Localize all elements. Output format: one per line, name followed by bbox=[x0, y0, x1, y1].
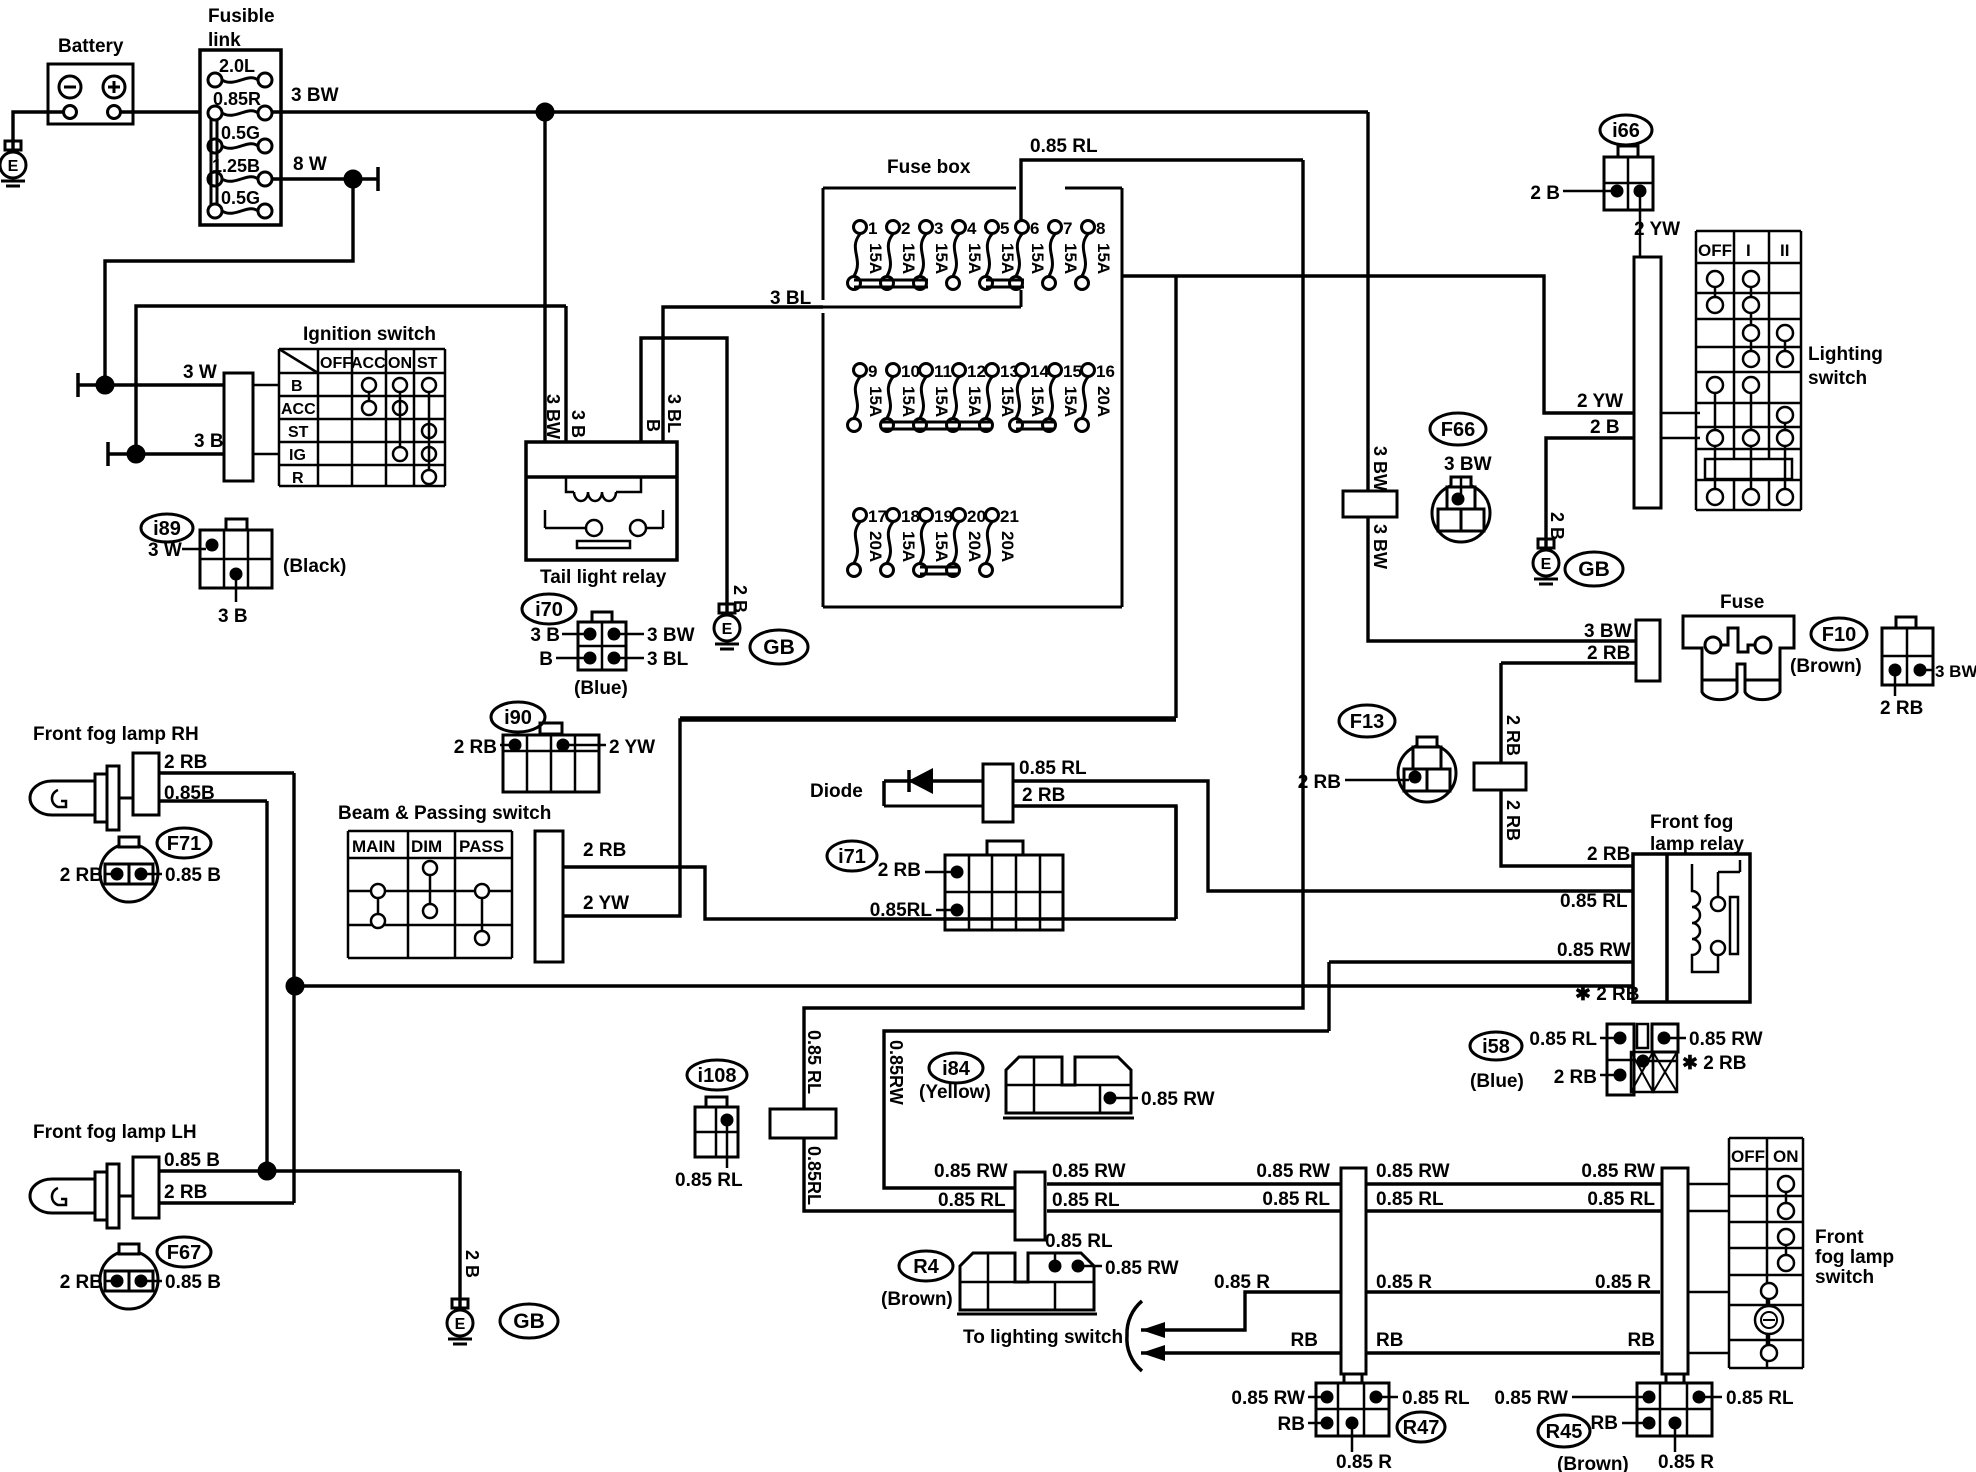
fusible link bus bbox=[210, 119, 213, 205]
fuse 18 15A bbox=[887, 509, 900, 522]
wire 0.85B lamp RH bbox=[159, 799, 267, 802]
fusible link box bbox=[200, 50, 281, 225]
svg-text:9: 9 bbox=[868, 362, 877, 381]
wire 2RB lamp LH bbox=[159, 1201, 294, 1204]
connector bar F10 bbox=[1474, 763, 1526, 790]
fuse 4 15A bbox=[953, 221, 966, 234]
svg-text:3 BW: 3 BW bbox=[1935, 662, 1976, 681]
wire bar to table B bbox=[253, 384, 279, 387]
ignition switch connector bar bbox=[224, 373, 253, 481]
fuse bus 14-15 bbox=[1016, 421, 1055, 424]
wire 0.85RW into relay bbox=[1329, 960, 1633, 963]
ground E tail relay bbox=[719, 604, 735, 613]
svg-text:15A: 15A bbox=[998, 243, 1017, 274]
fuse 6 15A bbox=[1016, 221, 1029, 234]
connector bar 3BW bbox=[1343, 491, 1397, 517]
svg-text:3: 3 bbox=[934, 219, 943, 238]
svg-text:0.85 RW: 0.85 RW bbox=[1256, 1161, 1330, 1182]
wire bar to table IG bbox=[253, 453, 279, 456]
wire 2B to ground LH bbox=[458, 1171, 461, 1308]
junction dot 8W bbox=[344, 170, 362, 188]
svg-text:2 YW: 2 YW bbox=[583, 893, 629, 914]
wire 3BW right drop bbox=[1366, 112, 1369, 491]
wire B relay to ground bbox=[641, 338, 727, 612]
svg-text:switch: switch bbox=[1815, 1267, 1874, 1288]
svg-text:i108: i108 bbox=[698, 1065, 737, 1087]
svg-text:2 B: 2 B bbox=[1530, 183, 1560, 204]
battery bbox=[48, 64, 133, 124]
svg-text:2 RB: 2 RB bbox=[1587, 844, 1630, 865]
R45 oval bbox=[1538, 1415, 1590, 1447]
bulb socket F71 bbox=[100, 844, 158, 902]
svg-text:3 BL: 3 BL bbox=[664, 394, 684, 433]
F66 oval bbox=[1430, 413, 1486, 445]
svg-text:6: 6 bbox=[1030, 219, 1039, 238]
F13 oval bbox=[1339, 705, 1395, 737]
wire 0.85RL barA-barB bbox=[1047, 1209, 1341, 1212]
fuse 14 15A bbox=[1016, 364, 1029, 377]
svg-text:RB: RB bbox=[1291, 1330, 1318, 1351]
lighting switch table bbox=[1695, 231, 1698, 510]
connector i66 bbox=[1618, 146, 1638, 157]
front fog lamp relay box bbox=[1633, 854, 1750, 1002]
label 2YW i66 bbox=[1639, 197, 1642, 257]
svg-text:2 RB: 2 RB bbox=[60, 865, 103, 886]
svg-text:ACC: ACC bbox=[281, 401, 316, 418]
wire loop branch vertical bbox=[1174, 276, 1177, 718]
svg-text:15A: 15A bbox=[998, 386, 1017, 417]
svg-text:15A: 15A bbox=[932, 386, 951, 417]
ignition switch table bbox=[279, 348, 445, 351]
connector F10 bbox=[1896, 617, 1916, 628]
svg-text:i58: i58 bbox=[1482, 1036, 1510, 1058]
svg-text:2 RB: 2 RB bbox=[1554, 1067, 1597, 1088]
svg-text:0.85 RW: 0.85 RW bbox=[1581, 1161, 1655, 1182]
svg-text:0.85 R: 0.85 R bbox=[1214, 1272, 1270, 1293]
svg-text:R47: R47 bbox=[1403, 1417, 1440, 1439]
wire 0.85RW vertical to relay bbox=[1327, 962, 1330, 1031]
svg-text:8 W: 8 W bbox=[293, 154, 327, 175]
i108 oval bbox=[687, 1060, 747, 1090]
i58 X cells bbox=[1631, 1052, 1653, 1092]
connector bar B bbox=[1341, 1168, 1366, 1374]
svg-text:15A: 15A bbox=[899, 531, 918, 562]
i89 oval bbox=[141, 514, 193, 542]
svg-text:15A: 15A bbox=[965, 243, 984, 274]
relay plate bbox=[1730, 897, 1738, 954]
ground E battery bbox=[5, 141, 21, 150]
fog switch contacts ON bbox=[1778, 1176, 1794, 1192]
wire 0.85B vertical bbox=[265, 801, 268, 1171]
fuse 10 15A bbox=[887, 364, 900, 377]
fuse 13 15A bbox=[986, 364, 999, 377]
lighting switch connector bar bbox=[1634, 257, 1661, 508]
svg-text:(Brown): (Brown) bbox=[1790, 656, 1862, 677]
junction dot 3W bbox=[96, 376, 114, 394]
stubs barC to fog switch bbox=[1688, 1183, 1729, 1186]
beam passing contacts bbox=[371, 884, 385, 898]
connector bar A bbox=[1015, 1172, 1045, 1240]
fuse 1 15A bbox=[854, 221, 867, 234]
wire 0.85RL below bar bbox=[804, 1138, 1014, 1211]
wire 0.85RW barB-barC bbox=[1366, 1182, 1662, 1185]
svg-text:20: 20 bbox=[967, 507, 986, 526]
wire 8W bbox=[272, 177, 378, 180]
svg-text:15A: 15A bbox=[1061, 386, 1080, 417]
connector R47 bbox=[1344, 1374, 1362, 1383]
svg-text:F71: F71 bbox=[167, 833, 201, 855]
connector R45 bbox=[1666, 1374, 1684, 1383]
bulb socket F67 bbox=[100, 1251, 158, 1309]
svg-text:0.85RL: 0.85RL bbox=[804, 1146, 824, 1205]
wire 0.85RW riser bbox=[884, 1031, 1329, 1188]
svg-text:15A: 15A bbox=[1094, 243, 1113, 274]
fog lamp RH connector bar bbox=[119, 797, 133, 800]
svg-text:0.85 B: 0.85 B bbox=[165, 865, 221, 886]
svg-text:2: 2 bbox=[901, 219, 910, 238]
terminal bar 8W bbox=[376, 167, 380, 191]
svg-text:2 RB: 2 RB bbox=[1587, 643, 1630, 664]
svg-text:7: 7 bbox=[1063, 219, 1072, 238]
svg-text:14: 14 bbox=[1030, 362, 1049, 381]
bulb socket F66 bbox=[1432, 484, 1490, 542]
svg-text:Lighting: Lighting bbox=[1808, 344, 1883, 365]
svg-text:2 YW: 2 YW bbox=[1634, 219, 1680, 240]
svg-text:15A: 15A bbox=[866, 386, 885, 417]
svg-text:Beam & Passing switch: Beam & Passing switch bbox=[338, 803, 551, 824]
fog lamp LH connector bar bbox=[119, 1195, 133, 1198]
svg-text:0.85 RL: 0.85 RL bbox=[1030, 136, 1098, 157]
svg-text:16: 16 bbox=[1096, 362, 1115, 381]
terminal bar 3W bbox=[76, 373, 80, 397]
F10 oval bbox=[1811, 618, 1867, 650]
tail relay bar bbox=[577, 541, 630, 548]
fuse box outline bbox=[823, 187, 1016, 190]
svg-text:3 BW: 3 BW bbox=[291, 85, 339, 106]
svg-text:PASS: PASS bbox=[459, 837, 504, 856]
svg-text:0.85 RL: 0.85 RL bbox=[1560, 891, 1628, 912]
svg-text:20A: 20A bbox=[998, 531, 1017, 562]
connector bar 0.85RL bbox=[770, 1109, 836, 1138]
wire 2B lighting switch bbox=[1661, 437, 1700, 440]
svg-text:20A: 20A bbox=[965, 531, 984, 562]
svg-text:0.85 RL: 0.85 RL bbox=[1529, 1029, 1597, 1050]
svg-text:8: 8 bbox=[1096, 219, 1105, 238]
junction dot 3B bbox=[127, 445, 145, 463]
lighting switch contacts OFF bbox=[1707, 271, 1723, 287]
wire 3W bbox=[78, 383, 224, 386]
svg-text:3 BL: 3 BL bbox=[770, 288, 812, 309]
wire 3BL inside fuse box to fuse 6 bbox=[823, 306, 1021, 309]
F67 oval bbox=[157, 1237, 211, 1267]
svg-text:switch: switch bbox=[1808, 368, 1867, 389]
connector i58 bbox=[1607, 1024, 1634, 1095]
svg-text:Front fog: Front fog bbox=[1650, 812, 1733, 833]
tail relay contacts bbox=[586, 520, 602, 536]
svg-text:0.5G: 0.5G bbox=[221, 123, 260, 143]
connector i70 bbox=[592, 612, 612, 622]
relay contacts bbox=[1711, 897, 1725, 911]
svg-text:E: E bbox=[722, 621, 733, 638]
svg-text:10: 10 bbox=[901, 362, 920, 381]
fuse 17 20A bbox=[854, 509, 867, 522]
svg-text:0.85 RL: 0.85 RL bbox=[1262, 1189, 1330, 1210]
svg-text:17: 17 bbox=[868, 507, 887, 526]
svg-text:15A: 15A bbox=[899, 386, 918, 417]
svg-text:OFF: OFF bbox=[1698, 241, 1732, 260]
svg-text:IG: IG bbox=[289, 447, 306, 464]
svg-text:F66: F66 bbox=[1441, 419, 1475, 441]
wire 0.85RL diode out bbox=[1013, 781, 1633, 891]
svg-text:3 W: 3 W bbox=[148, 540, 182, 561]
svg-text:3 B: 3 B bbox=[530, 625, 560, 646]
i58 oval bbox=[1470, 1032, 1522, 1060]
svg-text:5: 5 bbox=[1000, 219, 1009, 238]
svg-text:Fusible: Fusible bbox=[208, 6, 275, 27]
relay coil bbox=[1692, 864, 1718, 972]
svg-text:0.85 RW: 0.85 RW bbox=[1141, 1089, 1215, 1110]
svg-text:ST: ST bbox=[288, 424, 309, 441]
svg-text:0.85 RL: 0.85 RL bbox=[1045, 1231, 1113, 1252]
svg-text:Fuse box: Fuse box bbox=[887, 157, 971, 178]
svg-text:1: 1 bbox=[868, 219, 877, 238]
svg-text:3 B: 3 B bbox=[568, 410, 588, 438]
svg-text:F10: F10 bbox=[1822, 624, 1856, 646]
wire 2RB lamp RH bbox=[159, 771, 294, 774]
fuse bus 5-6 bbox=[986, 279, 1024, 282]
label 0.85 RW R4 bbox=[1084, 1265, 1102, 1268]
svg-text:ST: ST bbox=[417, 355, 438, 372]
svg-text:2 RB: 2 RB bbox=[583, 840, 626, 861]
svg-text:i71: i71 bbox=[838, 846, 866, 868]
svg-text:15: 15 bbox=[1063, 362, 1082, 381]
svg-text:15A: 15A bbox=[932, 243, 951, 274]
svg-text:GB: GB bbox=[513, 1310, 545, 1333]
wire 0.85RL from fuse 6 bbox=[1021, 160, 1303, 221]
svg-text:15A: 15A bbox=[1028, 243, 1047, 274]
wire 3BW main feed bbox=[272, 110, 1368, 113]
svg-text:15A: 15A bbox=[899, 243, 918, 274]
junction dot 0.85B bbox=[258, 1162, 276, 1180]
svg-text:15A: 15A bbox=[932, 531, 951, 562]
svg-text:21: 21 bbox=[1000, 507, 1019, 526]
svg-text:To lighting switch: To lighting switch bbox=[963, 1327, 1123, 1348]
svg-text:B: B bbox=[539, 649, 553, 670]
wire 2RB vertical RH-LH bbox=[292, 773, 295, 1203]
connector i108 bbox=[706, 1097, 727, 1107]
svg-text:0.85 RL: 0.85 RL bbox=[1019, 758, 1087, 779]
svg-text:3 BW: 3 BW bbox=[1444, 454, 1492, 475]
svg-text:0.85 RL: 0.85 RL bbox=[1587, 1189, 1655, 1210]
svg-text:R45: R45 bbox=[1546, 1421, 1583, 1443]
svg-text:0.85 R: 0.85 R bbox=[1336, 1452, 1392, 1472]
svg-text:0.85 RW: 0.85 RW bbox=[1052, 1161, 1126, 1182]
svg-text:(Yellow): (Yellow) bbox=[919, 1082, 991, 1103]
svg-text:Front: Front bbox=[1815, 1227, 1864, 1248]
front fog lamp switch table bbox=[1728, 1138, 1731, 1368]
svg-text:3 BW: 3 BW bbox=[1370, 524, 1390, 569]
fuse 15 15A bbox=[1049, 364, 1062, 377]
svg-text:Front fog lamp RH: Front fog lamp RH bbox=[33, 724, 199, 745]
connector i89 bbox=[226, 519, 247, 530]
wire *2RB trunk bbox=[295, 984, 1633, 987]
svg-text:i84: i84 bbox=[942, 1058, 971, 1080]
wire 2RB beam bbox=[563, 867, 1176, 919]
svg-text:2 YW: 2 YW bbox=[609, 737, 655, 758]
svg-text:2 RB: 2 RB bbox=[60, 1272, 103, 1293]
svg-text:0.85 RL: 0.85 RL bbox=[675, 1170, 743, 1191]
R47 oval bbox=[1397, 1412, 1445, 1442]
svg-text:2 RB: 2 RB bbox=[1503, 715, 1523, 756]
svg-text:3 BL: 3 BL bbox=[647, 649, 689, 670]
svg-text:20A: 20A bbox=[866, 531, 885, 562]
fog lamp LH bulb bbox=[30, 1179, 95, 1213]
wire 0.85R bbox=[1141, 1292, 1341, 1330]
beam passing table bbox=[348, 830, 512, 833]
svg-text:RB: RB bbox=[1278, 1414, 1305, 1435]
svg-text:2 RB: 2 RB bbox=[878, 860, 921, 881]
svg-text:15A: 15A bbox=[1061, 243, 1080, 274]
fuse 21 20A bbox=[986, 509, 999, 522]
fuse bus 1-3 bbox=[854, 279, 928, 282]
svg-text:2 RB: 2 RB bbox=[164, 1182, 207, 1203]
svg-text:Front fog lamp LH: Front fog lamp LH bbox=[33, 1122, 197, 1143]
F71 oval bbox=[157, 828, 211, 858]
svg-text:ON: ON bbox=[1773, 1147, 1799, 1166]
svg-text:i70: i70 bbox=[535, 599, 563, 621]
wire RB bbox=[1141, 1351, 1341, 1354]
GB oval lighting bbox=[1565, 552, 1623, 586]
svg-text:F13: F13 bbox=[1350, 711, 1384, 733]
svg-text:ON: ON bbox=[388, 355, 412, 372]
svg-text:2.0L: 2.0L bbox=[219, 56, 255, 76]
svg-text:E: E bbox=[455, 1316, 466, 1333]
i66 oval bbox=[1600, 115, 1652, 145]
fuse bus 10-13 bbox=[881, 421, 992, 424]
connector i84 bbox=[1006, 1057, 1131, 1113]
svg-text:B: B bbox=[291, 378, 303, 395]
svg-text:i66: i66 bbox=[1612, 120, 1640, 142]
wire 2YW fuse box to lighting switch bbox=[1122, 276, 1634, 413]
svg-text:Battery: Battery bbox=[58, 36, 124, 57]
fuse 3 15A bbox=[920, 221, 933, 234]
wire 8W branch down-left bbox=[105, 179, 353, 385]
svg-text:RB: RB bbox=[1376, 1330, 1403, 1351]
svg-text:15A: 15A bbox=[1028, 386, 1047, 417]
svg-text:3 W: 3 W bbox=[183, 362, 217, 383]
svg-text:0.85 RW: 0.85 RW bbox=[1494, 1388, 1568, 1409]
connector i90 bbox=[540, 723, 562, 734]
junction dot 3BW bbox=[536, 103, 554, 121]
connector i71 bbox=[987, 841, 1023, 855]
wire 0.85RW barA-barB bbox=[1047, 1182, 1341, 1185]
svg-text:0.85 RW: 0.85 RW bbox=[1231, 1388, 1305, 1409]
svg-text:GB: GB bbox=[1578, 558, 1610, 581]
svg-text:II: II bbox=[1780, 241, 1789, 260]
svg-text:0.85 RL: 0.85 RL bbox=[1052, 1190, 1120, 1211]
wire 3BW down to tail relay bbox=[543, 112, 546, 442]
svg-text:4: 4 bbox=[967, 219, 977, 238]
svg-text:0.85 RW: 0.85 RW bbox=[1105, 1258, 1179, 1279]
wire 2RB diode out bbox=[1013, 806, 1176, 919]
beam passing connector bar bbox=[535, 831, 563, 962]
svg-text:(Brown): (Brown) bbox=[881, 1289, 953, 1310]
svg-text:(Black): (Black) bbox=[283, 556, 346, 577]
svg-text:(Blue): (Blue) bbox=[1470, 1071, 1524, 1092]
fuse 11 15A bbox=[920, 364, 933, 377]
svg-text:GB: GB bbox=[763, 636, 795, 659]
svg-text:2 RB: 2 RB bbox=[1503, 800, 1523, 841]
fuse 9 15A bbox=[854, 364, 867, 377]
i70 oval bbox=[522, 594, 576, 624]
label 3 B i89 bbox=[235, 580, 238, 602]
svg-text:3 BW: 3 BW bbox=[1370, 446, 1390, 491]
svg-text:DIM: DIM bbox=[411, 837, 442, 856]
fuse 16 20A bbox=[1082, 364, 1095, 377]
svg-text:0.85 RL: 0.85 RL bbox=[1726, 1388, 1794, 1409]
GB oval LH bbox=[500, 1304, 558, 1338]
svg-text:0.85RL: 0.85RL bbox=[870, 900, 933, 921]
diode bbox=[882, 781, 886, 806]
svg-text:F67: F67 bbox=[167, 1242, 201, 1264]
svg-text:0.85 B: 0.85 B bbox=[165, 1272, 221, 1293]
svg-text:Tail light relay: Tail light relay bbox=[540, 567, 667, 588]
fuse 12 15A bbox=[953, 364, 966, 377]
connector bar C bbox=[1662, 1168, 1688, 1374]
wire battery positive to fusible link bbox=[121, 110, 200, 113]
svg-text:2 YW: 2 YW bbox=[1577, 391, 1623, 412]
svg-text:0.85 RW: 0.85 RW bbox=[934, 1161, 1008, 1182]
svg-text:(Brown): (Brown) bbox=[1557, 1454, 1629, 1472]
wire 3B into relay bbox=[564, 306, 567, 442]
svg-text:RB: RB bbox=[1591, 1413, 1618, 1434]
lighting switch contacts II bbox=[1777, 325, 1793, 341]
svg-text:lamp relay: lamp relay bbox=[1650, 834, 1744, 855]
i71 oval bbox=[827, 841, 877, 871]
svg-text:3 B: 3 B bbox=[218, 606, 248, 627]
svg-text:0.85R: 0.85R bbox=[213, 89, 261, 109]
wire 2RB to relay bbox=[1501, 790, 1633, 866]
svg-text:fog lamp: fog lamp bbox=[1815, 1247, 1894, 1268]
svg-text:R: R bbox=[292, 470, 304, 487]
svg-text:0.85 R: 0.85 R bbox=[1595, 1272, 1651, 1293]
svg-text:✱ 2 RB: ✱ 2 RB bbox=[1682, 1053, 1747, 1074]
ground E lighting bbox=[1538, 539, 1554, 548]
wire 2YW into lighting switch bbox=[1661, 412, 1700, 415]
junction dot 2RB lamps bbox=[286, 977, 304, 995]
fuse 19 15A bbox=[920, 509, 933, 522]
svg-text:0.85 RL: 0.85 RL bbox=[938, 1190, 1006, 1211]
tail light relay box bbox=[526, 442, 677, 560]
wire 2RB to fuse bar bbox=[1501, 661, 1636, 664]
diode connector bar bbox=[983, 764, 1013, 822]
wire 0.85B lamp LH bbox=[159, 1169, 460, 1172]
ignition contact links bbox=[368, 392, 371, 401]
svg-text:12: 12 bbox=[967, 362, 986, 381]
svg-text:2 RB: 2 RB bbox=[1880, 698, 1923, 719]
blade fuse symbol bbox=[1683, 616, 1794, 680]
wire 2RB down to F10 bar bbox=[1499, 663, 1502, 763]
svg-text:B: B bbox=[643, 419, 663, 432]
svg-text:OFF: OFF bbox=[1731, 1147, 1765, 1166]
svg-text:20A: 20A bbox=[1094, 386, 1113, 417]
fuse 7 15A bbox=[1049, 221, 1062, 234]
svg-text:2 B: 2 B bbox=[462, 1250, 482, 1278]
svg-text:2 B: 2 B bbox=[1547, 512, 1567, 540]
svg-text:I: I bbox=[1746, 241, 1751, 260]
fuse 20 20A bbox=[953, 509, 966, 522]
wire 3BW below bar bbox=[1368, 517, 1636, 641]
